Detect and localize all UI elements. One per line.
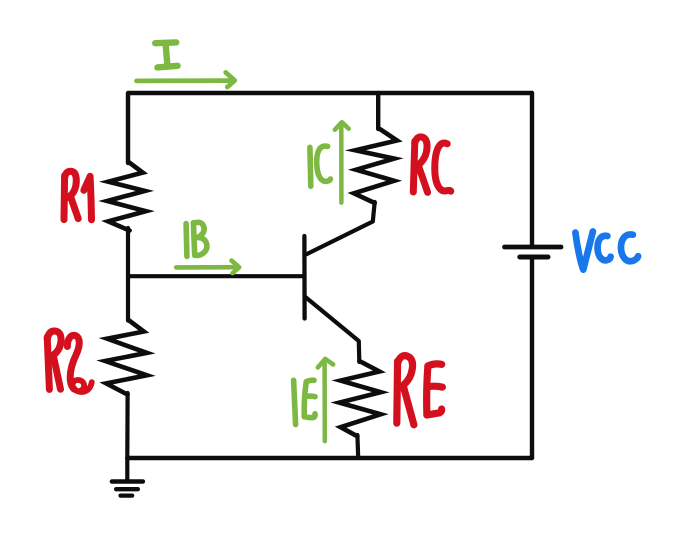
wire top rail bbox=[128, 93, 532, 163]
wire base node bbox=[128, 228, 304, 321]
transistor Q1 bbox=[302, 236, 307, 319]
resistor R1 bbox=[107, 162, 146, 231]
label IE bbox=[294, 380, 315, 424]
label R1 bbox=[64, 171, 92, 220]
wire emitter bbox=[306, 298, 359, 363]
wire RC branch top bbox=[376, 93, 380, 129]
label RC bbox=[413, 137, 451, 193]
wire right rail upper bbox=[530, 93, 534, 246]
wire right rail lower bbox=[530, 257, 534, 458]
wire RC to collector bbox=[307, 202, 375, 254]
label IC bbox=[310, 146, 331, 186]
label I bbox=[155, 42, 177, 67]
current arrow IC bbox=[335, 122, 349, 202]
battery VCC bbox=[505, 247, 562, 257]
ground bbox=[112, 458, 143, 496]
label IB bbox=[186, 222, 207, 256]
current arrow IE bbox=[318, 359, 333, 441]
resistor RE bbox=[339, 361, 380, 436]
label VCC bbox=[575, 232, 638, 270]
label R2 bbox=[47, 331, 92, 392]
wire R2 to ground rail bbox=[125, 393, 129, 458]
wire bottom rail bbox=[127, 456, 532, 460]
label RE bbox=[397, 356, 443, 425]
resistor R2 bbox=[105, 320, 147, 394]
wire RE to bottom rail bbox=[355, 435, 360, 458]
current arrow I bbox=[137, 72, 235, 87]
resistor RC bbox=[354, 128, 397, 203]
current arrow IB bbox=[176, 261, 239, 274]
